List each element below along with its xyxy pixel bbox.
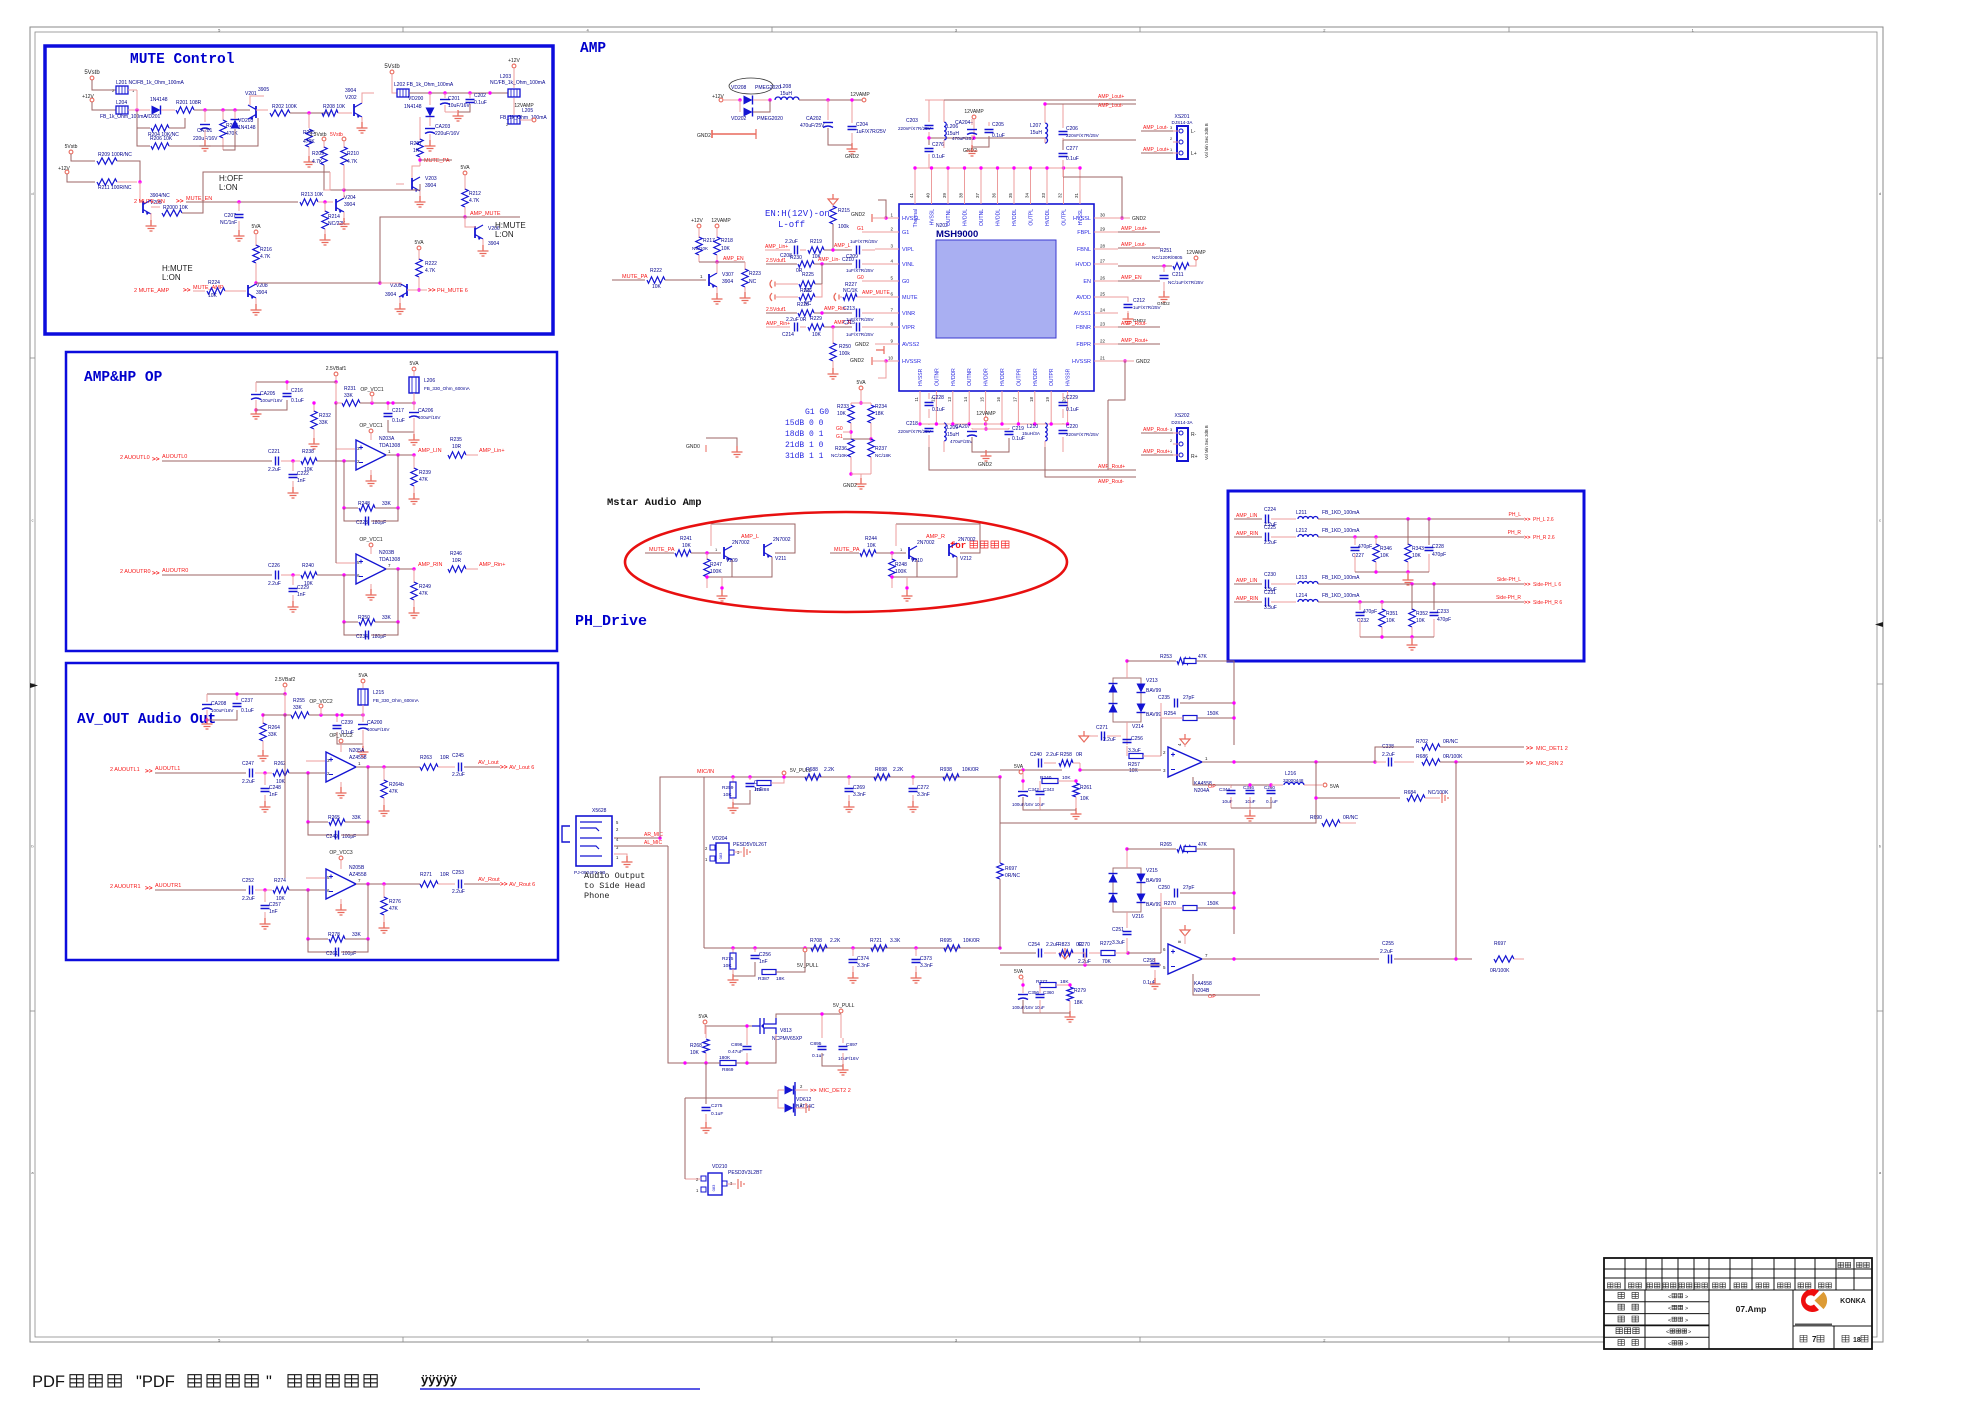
svg-text:R272: R272 [1100, 941, 1112, 947]
svg-text:AMP_LIN: AMP_LIN [1236, 578, 1258, 584]
svg-text:100k: 100k [839, 351, 850, 357]
wire fb r257 [1160, 718, 1162, 756]
svg-text:C276: C276 [932, 142, 944, 148]
resistor R259 [732, 777, 734, 782]
svg-text:0.1uF: 0.1uF [932, 154, 945, 160]
wire bus2 to right [1000, 822, 1306, 824]
svg-text:10K: 10K [682, 543, 692, 549]
svg-text:AMP_Rout-: AMP_Rout- [1143, 427, 1169, 433]
svg-text:V203: V203 [425, 176, 437, 182]
svg-text:2.2uF: 2.2uF [242, 896, 255, 902]
svg-text:R938: R938 [940, 767, 952, 773]
op-amp N205A [326, 752, 356, 782]
resistor R210 [343, 141, 345, 148]
capacitor CA208 [206, 694, 208, 702]
svg-text:2.5VBaf1: 2.5VBaf1 [326, 366, 347, 372]
svg-text:R208 10K: R208 10K [323, 104, 346, 110]
ground r223 [740, 292, 751, 303]
svg-text:C214: C214 [782, 332, 794, 338]
capacitor C212 pin25 [1118, 297, 1128, 302]
svg-text:AMP_L: AMP_L [834, 243, 851, 249]
svg-text:VD204: VD204 [712, 836, 728, 842]
svg-text:1uF/X7R/25V: 1uF/X7R/25V [856, 129, 887, 135]
capacitor C228 [925, 403, 934, 406]
svg-text:2 AUOUTL1: 2 AUOUTL1 [110, 767, 140, 773]
transistor V212 2N7002 [948, 544, 950, 556]
svg-text:PMEG2020: PMEG2020 [755, 85, 781, 91]
transistor V203 [411, 178, 413, 190]
wire up branch [1375, 747, 1414, 762]
pin 36 HVDDL [997, 168, 999, 204]
svg-text:C210: C210 [842, 257, 854, 263]
wire [338, 112, 352, 114]
svg-text:21dB 1 0: 21dB 1 0 [785, 441, 824, 450]
transistor V211 2N7002 [763, 544, 765, 556]
svg-text:R268: R268 [690, 1043, 702, 1049]
pin 23 FBNR [1094, 326, 1118, 328]
resistor R249 [413, 569, 415, 583]
svg-text:35: 35 [1008, 192, 1013, 198]
svg-text:C240: C240 [1030, 752, 1042, 758]
wire emitters [892, 560, 917, 577]
svg-text:L:ON: L:ON [495, 230, 514, 239]
wire fb [375, 455, 398, 508]
svg-text:C232: C232 [1357, 618, 1369, 624]
connector XS201 DJS14-3A [1177, 126, 1188, 159]
svg-text:G1: G1 [902, 230, 909, 236]
svg-text:R1288: R1288 [755, 787, 769, 793]
title block table [1604, 1258, 1872, 1349]
diode VD201 [152, 106, 161, 115]
svg-text:CA200: CA200 [367, 720, 383, 726]
power 5V_PULL a [782, 771, 786, 775]
svg-text:2.2uF: 2.2uF [268, 581, 281, 587]
svg-text:2.2uF: 2.2uF [786, 317, 799, 323]
svg-text:MUTE_PA: MUTE_PA [424, 158, 450, 164]
resistor R251 pin27 [1118, 265, 1172, 267]
svg-text:R233: R233 [837, 404, 849, 410]
svg-text:0.1uF: 0.1uF [392, 418, 405, 424]
svg-text:150K: 150K [1207, 711, 1219, 717]
svg-text:PESD3V3L2BT: PESD3V3L2BT [728, 1170, 762, 1176]
wire [161, 109, 175, 111]
inductor L206fb [413, 371, 415, 376]
resistor R230 [766, 263, 797, 265]
svg-text:R271: R271 [420, 872, 432, 878]
svg-text:AMP: AMP [580, 41, 606, 57]
wire fb [375, 569, 398, 622]
wire bottom rail lower [1360, 636, 1434, 638]
svg-text:N205A: N205A [349, 748, 365, 754]
svg-text:47K: 47K [389, 789, 399, 795]
svg-text:NC/10K: NC/10K [831, 453, 848, 458]
capacitor C276 [925, 149, 934, 152]
capacitor C346 [1246, 791, 1255, 794]
svg-text:AMP_EN: AMP_EN [723, 256, 744, 262]
svg-text:FB_1KD_100mA: FB_1KD_100mA [1322, 575, 1360, 581]
resistor R237 [868, 439, 874, 457]
svg-text:C356: C356 [1028, 990, 1039, 995]
svg-text:FB_330_Ohm_600mA: FB_330_Ohm_600mA [373, 698, 420, 703]
svg-text:Audio Output: Audio Output [584, 871, 645, 881]
wire [419, 191, 421, 198]
svg-text:AVDD: AVDD [1076, 295, 1091, 301]
svg-text:2.2uF: 2.2uF [1382, 752, 1395, 758]
resistor R255 [291, 712, 309, 718]
pin 27 HVDD [1094, 263, 1118, 265]
svg-text:VD201: VD201 [145, 114, 161, 120]
capacitor C203 [925, 126, 934, 129]
capacitor C207 [238, 202, 240, 211]
capacitor C216 [286, 382, 288, 390]
power 5VA l216 [1323, 783, 1327, 787]
centering arrows [30, 683, 38, 688]
svg-text:2.2uF: 2.2uF [1046, 942, 1059, 948]
svg-text:R264b: R264b [389, 782, 404, 788]
svg-text:R697: R697 [1494, 941, 1506, 947]
transistor V210 2N7002 [908, 547, 910, 559]
wire box [711, 524, 795, 553]
resistor R233 [848, 405, 854, 423]
wire [361, 117, 363, 124]
power +12V amp [719, 98, 723, 102]
svg-text:2 MUTE_EN: 2 MUTE_EN [134, 199, 165, 205]
wire out [356, 883, 420, 885]
ground c374 [848, 972, 859, 983]
resistor R250 [359, 619, 375, 625]
svg-text:2.2uF: 2.2uF [242, 779, 255, 785]
svg-text:C222: C222 [297, 471, 309, 477]
svg-text:7: 7 [1812, 1335, 1817, 1344]
inductor L213 [1271, 583, 1296, 585]
svg-text:H:OFF: H:OFF [219, 174, 243, 183]
svg-text:AMP_Rout+: AMP_Rout+ [1098, 464, 1125, 470]
svg-text:31: 31 [1074, 192, 1079, 198]
svg-text:CA202: CA202 [806, 116, 822, 122]
svg-text:N205B: N205B [349, 865, 365, 871]
wire output a [1202, 761, 1375, 763]
wire [318, 201, 333, 203]
power +12V v307 [697, 224, 701, 228]
capacitor C219 [1005, 432, 1014, 435]
svg-text:N203A: N203A [379, 436, 395, 442]
svg-text:R346: R346 [1380, 546, 1392, 552]
svg-text:10K/0R: 10K/0R [962, 767, 979, 773]
svg-text:R690: R690 [1310, 815, 1322, 821]
resistor R248 [359, 505, 375, 511]
svg-text:33K: 33K [293, 705, 303, 711]
capacitor C213 [857, 309, 860, 318]
svg-text:VD612: VD612 [796, 1097, 812, 1103]
svg-text:10R: 10R [452, 558, 462, 564]
svg-text:10K: 10K [690, 1050, 700, 1056]
svg-text:0.1uF: 0.1uF [1012, 436, 1025, 442]
svg-text:C237: C237 [241, 698, 253, 704]
resistor R708 [811, 945, 827, 951]
capacitor C356 C360 [1018, 994, 1028, 996]
resistor R203 [222, 110, 224, 120]
svg-text:470pF: 470pF [1437, 617, 1451, 623]
net AMP_Lin- [814, 263, 852, 265]
svg-text:47K: 47K [1198, 654, 1208, 660]
svg-text:C360: C360 [1043, 990, 1054, 995]
inductor L203 [508, 89, 520, 97]
wire top bus [915, 167, 1080, 169]
capacitor C234 [344, 622, 362, 635]
MUTE Control section box [45, 46, 553, 334]
ground GND2 c211 [1159, 291, 1170, 302]
svg-text:CA206: CA206 [418, 408, 434, 414]
wire [665, 279, 706, 281]
wire [1318, 536, 1524, 538]
resistor R263 [420, 764, 438, 770]
wire [929, 138, 1045, 145]
resistor R205 [308, 113, 310, 128]
pin 21 HVSSR [1094, 360, 1118, 362]
svg-text:C269: C269 [853, 785, 865, 791]
svg-text:07.Amp: 07.Amp [1736, 1304, 1767, 1314]
svg-text:2.2uF: 2.2uF [1046, 752, 1059, 758]
ground r684 [1442, 793, 1448, 803]
net MIC_DET2 [795, 1089, 808, 1091]
svg-text:2N7002: 2N7002 [773, 537, 791, 543]
svg-text:OUTNR: OUTNR [934, 368, 940, 386]
svg-text:C221: C221 [268, 449, 280, 455]
inductor L208 [775, 97, 799, 100]
svg-text:C233: C233 [1437, 609, 1449, 615]
capacitor CA207 [967, 431, 977, 433]
svg-text:R209 100R/NC: R209 100R/NC [98, 152, 132, 158]
svg-text:R222: R222 [425, 261, 437, 267]
ground [395, 303, 406, 314]
svg-text:C206: C206 [1066, 126, 1078, 132]
wire to gnd [721, 577, 723, 592]
svg-text:R697: R697 [1005, 866, 1017, 872]
wire bridge top [1126, 661, 1128, 678]
svg-text:>>: >> [152, 570, 160, 577]
svg-text:10K: 10K [837, 411, 847, 417]
ground c275 [701, 1122, 712, 1133]
svg-text:>>: >> [1526, 746, 1534, 752]
svg-text:H:MUTE: H:MUTE [162, 264, 193, 273]
wire output b [1202, 958, 1379, 960]
svg-text:C344: C344 [1219, 787, 1230, 792]
svg-text:>: > [1685, 1294, 1688, 1300]
transistor V206 [474, 226, 476, 238]
svg-text:R231: R231 [344, 386, 356, 392]
svg-text:MUTE Control: MUTE Control [130, 52, 235, 68]
svg-text:V216: V216 [1132, 914, 1144, 920]
svg-text:33K: 33K [352, 815, 362, 821]
power +12V right [512, 64, 516, 68]
wire [92, 102, 116, 110]
svg-text:AV_Rout 6: AV_Rout 6 [509, 882, 535, 888]
svg-text:R209: R209 [312, 151, 324, 157]
svg-text:L204: L204 [116, 100, 127, 106]
svg-text:R234: R234 [875, 404, 887, 410]
inductor L216 [1284, 783, 1304, 786]
capacitor C209 [857, 246, 860, 255]
svg-text:>>: >> [428, 287, 436, 294]
svg-text:L:ON: L:ON [219, 183, 238, 192]
svg-text:10K: 10K [721, 246, 731, 252]
wire 12VAMP drop [972, 115, 976, 119]
wire opamp +in [1080, 769, 1161, 771]
wire [117, 161, 140, 182]
capacitor C258 [1154, 958, 1156, 965]
svg-text:L216: L216 [1285, 771, 1296, 777]
GND2 stub symbol [712, 130, 756, 138]
svg-text:>: > [1688, 1330, 1691, 1336]
pin 32 OUTPL [1063, 168, 1065, 204]
pin 11 HVSSR [919, 391, 921, 424]
svg-text:Mstar Audio Amp: Mstar Audio Amp [607, 497, 702, 509]
svg-text:NC: NC [749, 279, 757, 285]
capacitor C201 [444, 93, 446, 98]
svg-text:VD200: VD200 [408, 96, 424, 102]
svg-text:NC/120R/0805: NC/120R/0805 [1152, 255, 1183, 260]
resistor R938 [943, 774, 959, 780]
resistor R277 [1022, 979, 1024, 985]
wire [128, 109, 150, 111]
svg-text:10K/0R: 10K/0R [963, 938, 980, 944]
resistor R271 [420, 881, 438, 887]
svg-text:L210: L210 [1027, 424, 1038, 430]
ground r3 [409, 607, 420, 618]
resistor R2000 [162, 210, 182, 216]
svg-text:HVSSL: HVSSL [1078, 209, 1084, 226]
op-amp N203B [356, 554, 386, 584]
svg-text:R224: R224 [208, 280, 220, 286]
svg-text:2.2uF: 2.2uF [268, 467, 281, 473]
svg-text:18: 18 [1029, 397, 1034, 403]
inductor L202 [397, 89, 409, 97]
svg-text:R247: R247 [710, 562, 722, 568]
svg-text:AMP_EN: AMP_EN [1121, 275, 1142, 281]
wire +in [336, 448, 355, 450]
svg-text:VINL: VINL [902, 262, 914, 268]
svg-text:V813: V813 [780, 1028, 792, 1034]
svg-text:HVDDL: HVDDL [1045, 209, 1051, 226]
pin 2 G1 [875, 231, 899, 233]
wire bottom rails [929, 447, 1136, 470]
capacitor C233 [1430, 613, 1439, 616]
svg-text:>>: >> [810, 1088, 816, 1094]
svg-text:C248: C248 [269, 785, 281, 791]
svg-text:R698: R698 [875, 767, 887, 773]
svg-text:AMP_Rout-: AMP_Rout- [1098, 479, 1124, 485]
power 2.5VBaf1 [334, 372, 338, 376]
pin 31 HVSSL [1079, 168, 1081, 204]
speaker mark 2 [770, 293, 775, 301]
red ellipse for mute circuit [625, 512, 1067, 612]
inductor L214 [1271, 601, 1296, 603]
capacitor C206 [1059, 132, 1068, 135]
svg-text:G0: G0 [902, 279, 909, 285]
svg-text:0.1uF: 0.1uF [1143, 980, 1156, 986]
svg-text:OUTPL: OUTPL [1029, 209, 1035, 226]
pin 3 VIPL [875, 248, 899, 250]
svg-text:AMP_RIN: AMP_RIN [1236, 596, 1259, 602]
svg-text:EN:H(12V)-on: EN:H(12V)-on [765, 209, 830, 219]
svg-text:33K: 33K [319, 420, 329, 426]
svg-text:1nF: 1nF [269, 909, 278, 915]
svg-text:18dB 0 1: 18dB 0 1 [785, 430, 824, 439]
resistor R1288 [757, 781, 771, 786]
ground upper [1407, 572, 1409, 576]
svg-text:L202 FB_1k_Ohm_100mA: L202 FB_1k_Ohm_100mA [394, 82, 454, 88]
svg-text:R241: R241 [680, 536, 692, 542]
ground r259 [728, 802, 739, 813]
svg-text:OUTPR: OUTPR [1049, 368, 1055, 386]
svg-text:470uF/25V: 470uF/25V [800, 123, 825, 129]
svg-text:2.2uF: 2.2uF [1380, 949, 1393, 955]
resistor R216 [255, 234, 257, 246]
header texts row1 right [1838, 1262, 1844, 1267]
wire to gnd [906, 577, 908, 592]
diode VD203 [231, 120, 240, 129]
svg-text:150K: 150K [1207, 901, 1219, 907]
svg-text:OP_VCC1: OP_VCC1 [359, 423, 383, 429]
pin 37 OUTNL [980, 168, 982, 204]
svg-text:G1: G1 [836, 434, 843, 440]
svg-text:33K: 33K [268, 732, 278, 738]
svg-text:10K: 10K [723, 963, 732, 969]
svg-text:OUTNL: OUTNL [979, 209, 985, 226]
svg-text:25: 25 [1100, 292, 1106, 297]
pin 20 HVSSR [1067, 391, 1069, 424]
resistor R279 [1067, 987, 1073, 1001]
wire to opamp [289, 889, 325, 891]
pin 13 HVDDR [952, 391, 954, 424]
svg-text:1K: 1K [413, 148, 420, 154]
wire [380, 283, 401, 284]
svg-text:R218: R218 [721, 238, 733, 244]
svg-text:V202: V202 [345, 95, 357, 101]
capacitor C256 [754, 948, 756, 952]
svg-text:AVSS2: AVSS2 [902, 342, 919, 348]
svg-text:1nF: 1nF [759, 959, 768, 965]
resistor R222b [418, 250, 420, 260]
svg-text:HVDDL: HVDDL [963, 209, 969, 226]
svg-text:NC/1nF: NC/1nF [220, 220, 237, 226]
power 5Vstb mid [69, 150, 73, 154]
svg-text:C895: C895 [810, 1041, 822, 1047]
svg-text:AV_Lout 6: AV_Lout 6 [509, 765, 534, 771]
svg-text:>>: >> [500, 764, 508, 771]
resistor R264b [383, 767, 385, 781]
capacitor C210 [857, 260, 860, 269]
resistor R207 [419, 117, 421, 140]
svg-text:G0: G0 [836, 426, 843, 432]
resistor R208 [322, 110, 338, 116]
svg-text:12VAMP: 12VAMP [964, 109, 984, 115]
svg-text:GND2: GND2 [697, 133, 711, 139]
op-amp N205B [326, 869, 356, 899]
resistor R235 [448, 452, 466, 458]
power 5VA [463, 171, 467, 175]
wire pin1-pin10 gnd link [878, 200, 886, 218]
svg-text:13: 13 [947, 397, 952, 403]
capacitor C269 [848, 777, 850, 785]
svg-text:R244: R244 [865, 536, 877, 542]
svg-text:0.1uF: 0.1uF [932, 407, 945, 413]
svg-text:L208: L208 [780, 84, 791, 90]
ground r3 [379, 805, 390, 816]
svg-text:C234: C234 [356, 634, 368, 640]
ground mstar [902, 590, 913, 601]
power OP_VCC1 [369, 543, 373, 547]
